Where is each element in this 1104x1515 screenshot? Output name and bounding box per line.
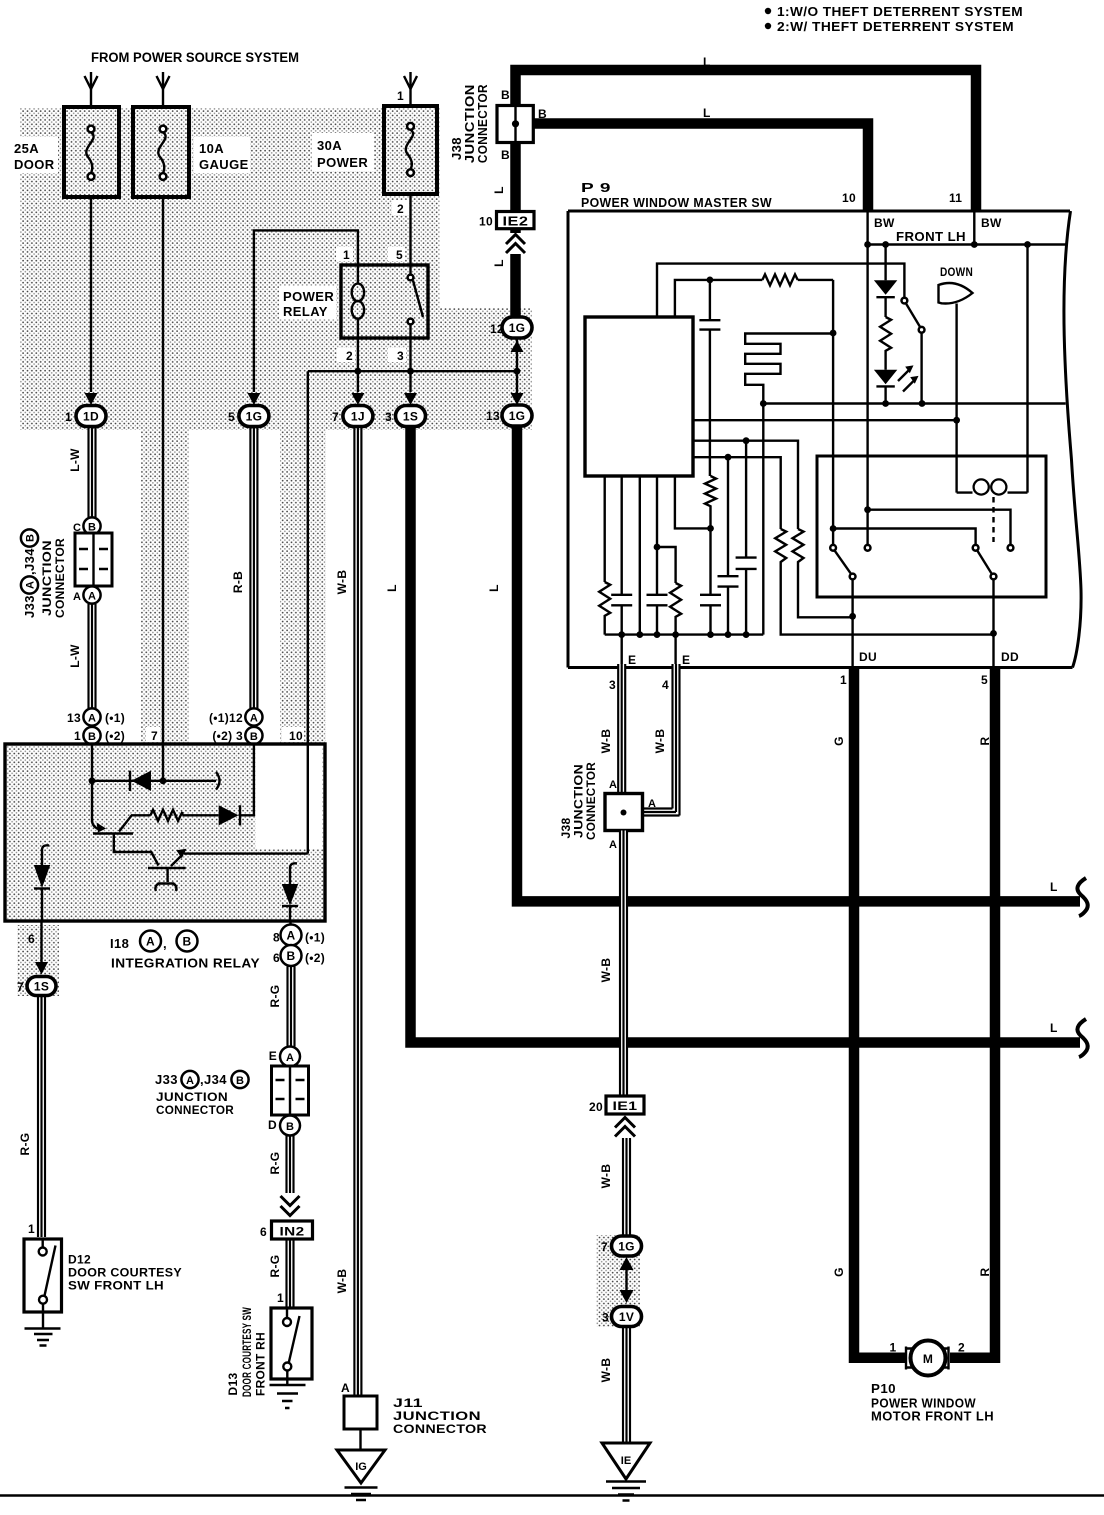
svg-text:FRONT LH: FRONT LH <box>896 229 966 244</box>
wire relay pin3 down <box>409 338 411 392</box>
svg-text:1: 1 <box>28 1222 35 1236</box>
svg-text:CONNECTOR: CONNECTOR <box>475 84 490 163</box>
svg-text:1: 1 <box>74 729 81 743</box>
branch from BW to right switch second contact <box>868 510 1011 545</box>
shaded patch 1S <box>17 925 59 996</box>
svg-text:L: L <box>492 259 506 267</box>
svg-text:G: G <box>832 736 846 746</box>
IC pin straight <box>639 476 641 635</box>
diode to BW <box>884 245 886 281</box>
wire L-W from 1D <box>89 427 96 519</box>
chevron arrows up under IE1 <box>615 1118 635 1137</box>
double chevron down <box>281 1196 300 1216</box>
line from IC to resistor RA <box>693 457 781 529</box>
wire into fuse 30A <box>409 72 411 106</box>
wire into fuse 25A <box>90 72 92 107</box>
connector 1S pin3 <box>396 406 426 427</box>
circled A pin12 <box>245 708 262 725</box>
svg-text:IE: IE <box>621 1455 631 1467</box>
svg-text:D13: D13 <box>226 1373 240 1396</box>
wire R-G to D12 <box>38 996 45 1238</box>
fuse 30A POWER box <box>384 106 437 194</box>
shaded region band around 1G connectors <box>440 308 532 430</box>
svg-text:(•1): (•1) <box>105 711 125 725</box>
svg-text:(•2): (•2) <box>305 951 325 965</box>
IC pin to cap B and R2 <box>656 476 658 595</box>
wire pin6 to 1S <box>40 921 42 962</box>
svg-text:2: 2 <box>397 202 404 216</box>
DD wire <box>992 580 994 668</box>
thick wire L from junction box right to pin 10 <box>534 124 869 212</box>
svg-text:B: B <box>538 107 547 121</box>
circled A <box>83 586 100 603</box>
integration relay shaded body <box>5 744 325 921</box>
wire fuse 25A to 1D <box>90 197 92 392</box>
switch contacts <box>830 545 836 551</box>
wire J11 to IG ground <box>359 1429 361 1450</box>
svg-text:2: 2 <box>958 1341 965 1355</box>
white label box 25A DOOR <box>8 137 58 173</box>
svg-text:A: A <box>648 798 656 810</box>
wire up to pin 3B <box>240 744 254 815</box>
left diode DL <box>42 845 49 857</box>
junction connector J33/J34 second box <box>272 1066 309 1115</box>
J33 A J34 B label rotated <box>21 529 38 618</box>
T2 lower lead <box>166 868 168 882</box>
svg-text:W-B: W-B <box>599 958 613 983</box>
IC block <box>585 317 693 476</box>
svg-text:B: B <box>501 88 510 102</box>
junction connector J38 box <box>497 106 533 143</box>
svg-text:B: B <box>88 731 96 743</box>
junction wire horizontal <box>308 370 517 372</box>
svg-text:3: 3 <box>385 410 392 424</box>
svg-text:R-G: R-G <box>268 1152 282 1175</box>
svg-text:JUNCTION: JUNCTION <box>156 1090 228 1104</box>
wire relay pin2 down <box>357 338 359 392</box>
svg-text:1G: 1G <box>246 410 263 424</box>
connector 6 IN2 <box>272 1221 313 1239</box>
svg-text:D12: D12 <box>68 1253 91 1267</box>
svg-text:25A: 25A <box>14 141 39 156</box>
L break symbol 1 <box>1077 878 1087 916</box>
svg-text:E: E <box>682 653 690 667</box>
svg-text:IN2: IN2 <box>280 1225 305 1239</box>
arrowhead <box>157 76 170 89</box>
svg-text:DU: DU <box>859 650 877 664</box>
arrow into 1J <box>351 393 364 405</box>
svg-text:(•1)12: (•1)12 <box>209 711 243 725</box>
svg-text:IE1: IE1 <box>613 1099 638 1113</box>
svg-text:R-B: R-B <box>231 571 245 593</box>
svg-text:J11: J11 <box>393 1396 423 1410</box>
svg-text:(•1): (•1) <box>305 931 325 945</box>
svg-text:W-B: W-B <box>599 1358 613 1383</box>
svg-text:GAUGE: GAUGE <box>199 157 249 172</box>
svg-text:J33: J33 <box>155 1072 178 1087</box>
L break symbol 2 <box>1077 1019 1087 1057</box>
long line from heater junction <box>763 402 1065 404</box>
white label box 10A GAUGE <box>194 137 250 173</box>
svg-text:30A: 30A <box>317 138 342 153</box>
svg-text:B: B <box>501 148 510 162</box>
wire above arrow <box>516 371 518 393</box>
svg-text:JUNCTION: JUNCTION <box>393 1409 481 1423</box>
coil in inner box <box>957 491 1028 493</box>
mid chain cap C <box>709 528 711 594</box>
wire L-W lower <box>89 604 96 709</box>
svg-text:A: A <box>25 581 37 589</box>
svg-text:MOTOR FRONT LH: MOTOR FRONT LH <box>871 1409 994 1424</box>
svg-text:P 9: P 9 <box>581 180 611 195</box>
master sw box wavy right edge <box>1064 211 1081 668</box>
svg-text:A: A <box>287 929 296 943</box>
svg-text:1: 1 <box>890 1341 897 1355</box>
DOWN stem to coil <box>955 304 957 493</box>
fuse 10A GAUGE box <box>133 107 189 197</box>
svg-text:W-B: W-B <box>335 1269 349 1294</box>
svg-text:A: A <box>286 1052 294 1064</box>
transistor T2 <box>148 867 186 869</box>
svg-text:12: 12 <box>490 322 504 336</box>
junction connector J11 box <box>344 1396 377 1429</box>
svg-text:6: 6 <box>260 1225 267 1239</box>
svg-text:POWER: POWER <box>317 155 368 170</box>
svg-text:RELAY: RELAY <box>283 304 328 319</box>
IE triangle <box>602 1443 650 1479</box>
wire B from IC through resistor <box>675 280 763 317</box>
IC pin elbow to mid chain <box>675 476 711 528</box>
wire 1G12 to junction <box>516 338 518 371</box>
svg-text:(•2): (•2) <box>105 729 125 743</box>
wire R-B from 1G pin5 <box>250 427 257 709</box>
lock switch contact <box>902 298 908 304</box>
svg-text:7: 7 <box>17 980 24 994</box>
svg-text:A: A <box>73 591 81 603</box>
svg-text:R: R <box>978 736 992 745</box>
svg-text:IG: IG <box>355 1461 367 1473</box>
D13 switch box <box>271 1308 312 1379</box>
fuse 30A element <box>407 123 414 130</box>
DU wire <box>851 580 853 668</box>
svg-text:L: L <box>492 186 506 194</box>
svg-text:10: 10 <box>479 215 493 229</box>
arrow down <box>620 1290 634 1303</box>
wire W-B 1V to IE ground <box>623 1327 630 1443</box>
svg-text:J33: J33 <box>22 595 37 618</box>
circled B pin3 <box>245 727 262 744</box>
svg-text:W-B: W-B <box>653 729 667 754</box>
svg-text:1: 1 <box>397 89 404 103</box>
master sw box bottom edge <box>568 666 1073 669</box>
IG triangle <box>337 1450 385 1483</box>
svg-text:IE2: IE2 <box>503 214 529 229</box>
shaded region top-left block <box>20 108 440 430</box>
svg-text:POWER WINDOW MASTER SW: POWER WINDOW MASTER SW <box>581 195 772 210</box>
arrow up <box>620 1257 634 1270</box>
svg-text:CONNECTOR: CONNECTOR <box>156 1103 234 1117</box>
svg-text:L-W: L-W <box>68 644 82 668</box>
inner relay contact box <box>817 456 1046 597</box>
connector 1D <box>76 406 106 427</box>
svg-text:W-B: W-B <box>599 729 613 754</box>
IG ground bars <box>345 1488 378 1501</box>
svg-text:W-B: W-B <box>599 1164 613 1189</box>
svg-text:I18: I18 <box>110 936 129 951</box>
pin 7 label <box>146 727 160 742</box>
line from IC to resistor RB <box>693 441 798 529</box>
FRONT LH sub box <box>868 211 975 245</box>
wire R-G DB to IN2 <box>287 1136 294 1194</box>
connector 10 IE2 <box>497 212 535 229</box>
diode pointing right <box>219 805 239 825</box>
right diode DR <box>290 863 297 875</box>
row junction dots <box>864 241 871 248</box>
white label box 30A POWER <box>312 133 374 171</box>
svg-text:4: 4 <box>662 678 669 692</box>
circled B pin1 <box>83 727 100 744</box>
svg-text:DOOR COURTESY: DOOR COURTESY <box>68 1266 182 1280</box>
resistor RA vertical <box>775 529 993 635</box>
BW row line <box>868 243 1066 245</box>
connector 1S pin7 <box>27 977 56 996</box>
pin 10 label <box>282 727 304 742</box>
wire relay pin1 up and left to 1G <box>254 230 358 392</box>
thick wire L IE2 to 1G12 <box>510 229 521 317</box>
svg-text:1G: 1G <box>509 409 526 423</box>
svg-text:3: 3 <box>397 349 404 363</box>
relay coil <box>357 265 359 338</box>
svg-text:1S: 1S <box>403 410 418 424</box>
resistor R int <box>151 810 183 821</box>
svg-text:5: 5 <box>981 673 988 687</box>
wire pin10 down to integration relay <box>307 371 309 744</box>
line from IC to DOWN stem <box>693 419 957 421</box>
svg-text:7: 7 <box>332 410 339 424</box>
wire into fuse 10A <box>162 72 164 107</box>
svg-text:M: M <box>923 1352 933 1366</box>
D12 ground <box>42 1304 44 1329</box>
svg-text:7: 7 <box>601 1240 608 1254</box>
svg-text:L: L <box>385 584 399 592</box>
arrow into 1G pin13 <box>511 393 524 405</box>
white patch pin labels <box>336 247 353 261</box>
svg-text:3: 3 <box>602 1311 609 1325</box>
connector 1G pin12 <box>502 317 532 338</box>
svg-text:G: G <box>832 1267 846 1277</box>
svg-text:13: 13 <box>486 409 500 423</box>
svg-text:1G: 1G <box>618 1240 635 1254</box>
junction dots <box>355 368 362 375</box>
svg-text:10A: 10A <box>199 141 224 156</box>
svg-text:2:W/ THEFT DETERRENT SYSTEM: 2:W/ THEFT DETERRENT SYSTEM <box>777 19 1014 34</box>
svg-text:INTEGRATION RELAY: INTEGRATION RELAY <box>111 956 260 971</box>
chevron up under 12 1G <box>511 341 524 353</box>
wire pin7 inside relay <box>162 744 164 781</box>
power relay box <box>341 265 428 338</box>
svg-text:1D: 1D <box>83 410 99 424</box>
svg-text:JUNCTION: JUNCTION <box>40 540 54 616</box>
arrow into 1G <box>247 393 260 405</box>
svg-text:8: 8 <box>273 931 280 945</box>
D13 ground <box>286 1371 288 1386</box>
D12 switch box <box>24 1239 62 1312</box>
svg-text:BW: BW <box>981 216 1002 230</box>
svg-text:L: L <box>487 584 501 592</box>
svg-text:A: A <box>341 1381 350 1395</box>
svg-text:1: 1 <box>840 673 847 687</box>
thick wire B down to IE2 <box>510 142 521 212</box>
heater ground drop <box>762 404 764 635</box>
svg-text:1V: 1V <box>619 1310 634 1324</box>
junction connector J33/J34 box <box>75 533 112 586</box>
dashed armature link <box>992 497 994 542</box>
connector 1G pin5 <box>239 406 269 427</box>
svg-text:R-G: R-G <box>268 985 282 1008</box>
shaded patch 1G 1V <box>596 1235 640 1327</box>
wire W-B from 1J to J11 <box>354 427 361 1397</box>
motor M <box>911 1341 946 1376</box>
circled B D <box>280 1116 300 1136</box>
arrowhead <box>85 76 98 89</box>
arrow into 1S <box>404 393 417 405</box>
svg-text:R-G: R-G <box>18 1133 32 1156</box>
svg-text:DOOR COURTESY SW: DOOR COURTESY SW <box>240 1307 254 1397</box>
svg-text:1G: 1G <box>509 321 526 335</box>
wire A from IC to lock switch <box>657 264 904 317</box>
svg-text:1S: 1S <box>34 980 49 994</box>
thick L wire from 1S down and right <box>411 426 1081 1043</box>
svg-text:A: A <box>146 935 155 949</box>
wire B down into inner box <box>832 280 834 545</box>
wire W-B pin3 to J38 <box>618 664 625 794</box>
svg-text:CONNECTOR: CONNECTOR <box>584 762 598 840</box>
connector 1G pin7 <box>612 1236 642 1256</box>
svg-text:10: 10 <box>842 191 856 205</box>
svg-text:FROM POWER SOURCE SYSTEM: FROM POWER SOURCE SYSTEM <box>91 50 299 65</box>
circled A E <box>280 1047 300 1067</box>
relay contact <box>409 265 411 275</box>
thick G wire DU to motor <box>854 668 905 1358</box>
svg-text:R-G: R-G <box>268 1255 282 1278</box>
link line <box>625 1268 627 1292</box>
svg-text:P10: P10 <box>871 1381 896 1396</box>
svg-text:CONNECTOR: CONNECTOR <box>393 1422 487 1436</box>
connector 20 IE1 <box>606 1096 644 1114</box>
wire R-G IN2 to D13 <box>287 1239 294 1308</box>
svg-text:R: R <box>978 1267 992 1276</box>
junction connector J38 second box <box>605 794 643 831</box>
svg-text:2: 2 <box>346 349 353 363</box>
IE ground bars <box>606 1482 646 1501</box>
svg-text:(•2) 3: (•2) 3 <box>212 729 243 743</box>
arrow into 1D <box>85 393 98 405</box>
fuse 10A element <box>160 126 167 133</box>
left switch arm <box>835 551 851 574</box>
svg-text:L: L <box>703 55 711 69</box>
svg-text:W-B: W-B <box>335 570 349 595</box>
master sw box left edge <box>567 211 570 668</box>
resistor vertical mid <box>705 476 716 528</box>
svg-text:E: E <box>628 653 636 667</box>
arrowhead <box>404 76 417 89</box>
thick L wire from 1G13 down and right <box>517 426 1080 902</box>
svg-text:E: E <box>269 1049 277 1063</box>
svg-text:A: A <box>609 839 617 851</box>
svg-text:L: L <box>703 106 711 120</box>
svg-text:B: B <box>287 949 296 963</box>
white label box POWER RELAY <box>279 286 336 319</box>
cap D chain <box>727 457 729 576</box>
svg-text:,J34: ,J34 <box>22 548 37 575</box>
svg-text:,J34: ,J34 <box>200 1072 227 1087</box>
svg-text:1: 1 <box>277 1291 284 1305</box>
svg-text:1: 1 <box>343 248 350 262</box>
motor terminal right <box>947 1347 949 1370</box>
svg-text:DOOR: DOOR <box>14 157 55 172</box>
IC bottom pin to R1 <box>604 476 606 582</box>
svg-text:B: B <box>183 935 192 949</box>
svg-text:5: 5 <box>396 248 403 262</box>
svg-text:DOWN: DOWN <box>940 265 973 279</box>
coil right lead up to BW row <box>1026 245 1028 493</box>
DOWN key symbol <box>939 283 973 304</box>
svg-text:CONNECTOR: CONNECTOR <box>53 538 67 618</box>
svg-text:B: B <box>25 534 37 542</box>
svg-text:1: 1 <box>65 410 72 424</box>
svg-text:B: B <box>250 731 258 743</box>
hook end <box>216 772 220 790</box>
pin4 drop <box>674 635 676 668</box>
legend bullet 1 <box>765 8 771 14</box>
resistor under diode <box>880 317 891 370</box>
svg-text:5: 5 <box>228 410 235 424</box>
fuse 25A element <box>88 126 95 133</box>
shaded strip under 10A gauge wire <box>141 430 189 744</box>
svg-text:7: 7 <box>151 729 158 743</box>
svg-text:SW FRONT LH: SW FRONT LH <box>68 1279 164 1293</box>
left switch branch to right contact <box>833 529 976 545</box>
resistor horizontal <box>762 274 797 285</box>
svg-text:10: 10 <box>289 729 303 743</box>
diode bus line <box>92 780 216 782</box>
legend bullet 2 <box>765 23 771 29</box>
shaded strip under pin10 wire <box>280 430 326 744</box>
bottom rule <box>0 1494 1104 1497</box>
svg-text:13: 13 <box>67 711 81 725</box>
thick wire L from junction box top across to pin 11 <box>516 70 977 211</box>
master sw box top edge <box>568 210 1070 213</box>
transistor T1 <box>92 781 98 829</box>
IC pin to cap A <box>621 476 623 595</box>
wire W-B pin4 L-shape <box>643 664 676 812</box>
T1 to T2 <box>114 834 159 866</box>
svg-text:B: B <box>236 1075 244 1087</box>
svg-text:L: L <box>1050 880 1058 894</box>
svg-text:FRONT RH: FRONT RH <box>254 1332 268 1396</box>
circled B <box>83 517 100 534</box>
svg-text:POWER: POWER <box>283 289 334 304</box>
pin 8 wire to circles <box>289 921 291 925</box>
connector 1G pin13 <box>502 405 532 426</box>
wire W-B J38 down to IE1 <box>620 831 627 1097</box>
svg-text:L: L <box>1050 1021 1058 1035</box>
LED arrows <box>898 371 909 382</box>
cap E chain <box>745 441 747 558</box>
svg-text:6: 6 <box>273 951 280 965</box>
svg-text:A: A <box>609 779 617 791</box>
capacitor top <box>709 280 711 320</box>
